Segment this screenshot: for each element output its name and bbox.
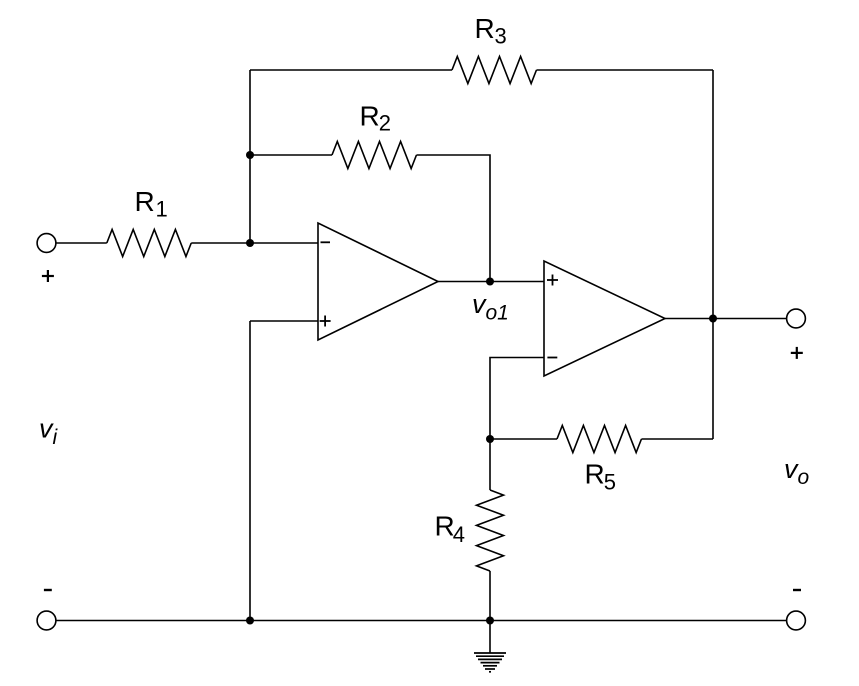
node output junction xyxy=(709,315,717,323)
wire ground stub xyxy=(489,621,491,654)
wire U2 inverting input xyxy=(490,358,544,440)
wire R5 left lead xyxy=(490,438,557,440)
resistor R4 xyxy=(477,490,504,571)
ground xyxy=(474,653,506,672)
resistor R2 xyxy=(332,142,416,169)
output minus sign xyxy=(793,589,801,591)
svg-text:R: R xyxy=(360,100,380,131)
terminal output + xyxy=(787,309,806,328)
svg-text:R: R xyxy=(135,186,155,217)
node R2 junction xyxy=(246,151,254,159)
input plus sign xyxy=(42,270,54,282)
svg-text:2: 2 xyxy=(379,111,391,136)
label vo xyxy=(784,454,810,489)
wire bottom rail xyxy=(56,620,787,622)
wire left vertical up to R3 rail xyxy=(249,70,251,243)
label R2 xyxy=(360,100,392,135)
svg-text:i: i xyxy=(53,426,59,449)
svg-text:4: 4 xyxy=(453,522,465,547)
label R5 xyxy=(585,458,617,494)
label R3 xyxy=(475,13,507,49)
node vo1 xyxy=(486,278,494,286)
wire right vertical xyxy=(712,70,714,439)
resistor R3 xyxy=(452,57,536,84)
wire R1 to op-amp inverting input xyxy=(191,242,318,244)
op-amp U1 xyxy=(318,223,438,340)
output plus sign xyxy=(791,347,803,359)
label R4 xyxy=(435,511,466,547)
op-amp U2 plus pin mark xyxy=(547,275,558,286)
op-amp U2 minus pin mark xyxy=(547,357,557,359)
terminal output - xyxy=(787,611,806,630)
wire U2 output xyxy=(665,318,787,320)
svg-text:3: 3 xyxy=(495,24,507,49)
op-amp U1 minus pin mark xyxy=(321,241,331,243)
svg-text:o1: o1 xyxy=(486,302,509,325)
svg-text:o: o xyxy=(798,466,810,489)
label vo1 xyxy=(472,289,509,325)
wire R3 right lead xyxy=(536,69,713,71)
wire U1 noninverting input xyxy=(250,320,318,322)
svg-text:5: 5 xyxy=(604,469,616,494)
resistor R5 xyxy=(557,426,641,453)
label R1 xyxy=(135,186,168,222)
svg-text:R: R xyxy=(435,511,455,542)
op-amp U1 plus pin mark xyxy=(320,316,331,327)
label vi xyxy=(39,414,59,449)
wire R5 right lead xyxy=(641,438,713,440)
wire input lead xyxy=(56,242,107,244)
svg-text:R: R xyxy=(475,13,495,44)
terminal input - xyxy=(37,611,56,630)
svg-text:R: R xyxy=(585,458,605,489)
wire left vertical down to bottom rail xyxy=(249,321,251,621)
wire R2 left lead xyxy=(250,154,332,156)
node ground junction xyxy=(486,617,494,625)
node bottom left junction xyxy=(246,617,254,625)
svg-text:1: 1 xyxy=(156,197,168,222)
wire R3 left lead xyxy=(250,69,452,71)
wire U1 output to U2 input xyxy=(438,281,544,283)
wire R2 right lead and drop to vo1 node xyxy=(416,155,490,282)
terminal input + xyxy=(37,234,56,253)
resistor R1 xyxy=(107,230,191,257)
input minus sign xyxy=(44,589,52,591)
node R4 R5 junction xyxy=(486,435,494,443)
wire R4 bottom lead xyxy=(489,571,491,621)
wire R4 top lead xyxy=(489,439,491,490)
op-amp U2 xyxy=(544,261,665,376)
node R1 junction xyxy=(246,239,254,247)
